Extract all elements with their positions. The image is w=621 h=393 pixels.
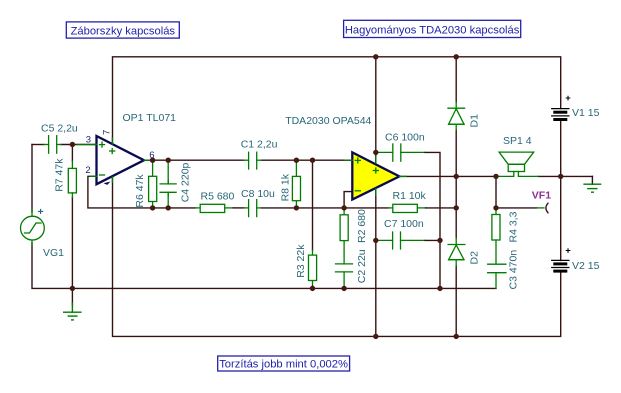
svg-text:R2 680: R2 680 bbox=[356, 209, 368, 243]
wire VG1 column and ground row bbox=[31, 145, 33, 213]
label title right bbox=[344, 20, 521, 37]
wire C5 input row bbox=[32, 144, 44, 146]
svg-text:7: 7 bbox=[102, 130, 113, 135]
node C6 left bbox=[373, 150, 378, 155]
svg-text:TDA2030 OPA544: TDA2030 OPA544 bbox=[285, 115, 371, 127]
svg-text:6: 6 bbox=[149, 150, 154, 161]
wire battery column mid bbox=[560, 120, 562, 260]
svg-text:+: + bbox=[38, 206, 44, 218]
svg-text:R3 22k: R3 22k bbox=[295, 244, 307, 278]
node VF1 tap bbox=[493, 205, 498, 210]
svg-text:R4 3,3: R4 3,3 bbox=[508, 211, 520, 242]
wire TDA output row bbox=[399, 175, 497, 177]
node R3 top bbox=[310, 158, 315, 163]
svg-text:D2: D2 bbox=[469, 251, 481, 265]
svg-text:SP1 4: SP1 4 bbox=[503, 135, 532, 147]
node battery mid bbox=[558, 174, 563, 179]
resistor R3 bbox=[309, 255, 317, 280]
wire TDA power bottom bbox=[375, 188, 377, 337]
battery V1 bbox=[552, 109, 569, 120]
wire top rail bbox=[113, 57, 561, 144]
wire R7 column bbox=[71, 145, 73, 162]
wire op-amp output row bbox=[144, 159, 244, 161]
diode D1 bbox=[448, 102, 465, 130]
svg-text:C7 100n: C7 100n bbox=[384, 218, 424, 230]
wire TDA minus input bbox=[344, 192, 352, 208]
diode D2 bbox=[448, 238, 465, 266]
node R8 bottom bbox=[294, 205, 299, 210]
svg-text:3: 3 bbox=[86, 135, 91, 146]
wire feedback row bbox=[153, 207, 196, 209]
wire diode column bbox=[455, 57, 457, 102]
svg-text:C2 22u: C2 22u bbox=[356, 249, 368, 283]
label title left bbox=[66, 22, 179, 38]
wire op-amp pin2 feedback bbox=[88, 176, 153, 208]
capacitor C3 bbox=[488, 240, 506, 288]
resistor R5 bbox=[200, 204, 225, 212]
op-amp U2 TDA2030 bbox=[345, 152, 406, 199]
node C6C7 ground bbox=[437, 286, 442, 291]
svg-text:C1 2,2u: C1 2,2u bbox=[241, 138, 278, 150]
svg-text:2: 2 bbox=[85, 165, 90, 176]
capacitor C1 bbox=[244, 152, 261, 169]
node speaker left bbox=[493, 174, 498, 179]
svg-text:V1 15: V1 15 bbox=[572, 107, 600, 119]
svg-text:C3 470n: C3 470n bbox=[508, 250, 520, 290]
node R7 bottom ground bbox=[70, 286, 75, 291]
svg-text:Hagyományos TDA2030 kapcsolás: Hagyományos TDA2030 kapcsolás bbox=[345, 25, 520, 37]
wire R8 column bbox=[295, 160, 297, 176]
node dots bbox=[70, 54, 564, 339]
node C4 top bbox=[166, 158, 171, 163]
ground (right) bbox=[584, 184, 601, 192]
node R1 right bbox=[454, 205, 459, 210]
svg-text:R6 47k: R6 47k bbox=[134, 174, 146, 208]
wire VF1 row bbox=[496, 207, 537, 209]
wire bottom rail bbox=[113, 177, 561, 337]
resistor R4 bbox=[492, 215, 500, 241]
svg-text:Torzítás jobb mint 0,002%: Torzítás jobb mint 0,002% bbox=[219, 358, 348, 370]
wire R2 C2 column bbox=[343, 208, 345, 215]
op-amp OP1 bbox=[77, 136, 151, 185]
voltage generator VG1 bbox=[21, 209, 45, 245]
capacitor C5 bbox=[44, 136, 61, 154]
node D2 bottom rail bbox=[454, 334, 459, 339]
node C5/R7/pin3 bbox=[70, 142, 75, 147]
node D1 output bbox=[454, 174, 459, 179]
svg-text:R5 680: R5 680 bbox=[201, 191, 235, 203]
svg-text:C4 220p: C4 220p bbox=[180, 162, 192, 202]
node C7 left bbox=[373, 238, 378, 243]
svg-text:VG1: VG1 bbox=[43, 247, 64, 259]
wire C6 leads bbox=[378, 151, 393, 153]
resistor R7 bbox=[68, 168, 76, 193]
resistor R8 bbox=[292, 176, 300, 200]
node R8 top bbox=[294, 158, 299, 163]
speaker SP1 bbox=[497, 152, 538, 176]
svg-text:Záborszky kapcsolás: Záborszky kapcsolás bbox=[71, 25, 176, 37]
wire C7 leads bbox=[378, 239, 393, 241]
wire R3 column bbox=[312, 160, 314, 250]
node R2 top bbox=[341, 205, 346, 210]
capacitor C6 bbox=[393, 144, 401, 161]
resistor R1 bbox=[393, 204, 418, 212]
battery V2 bbox=[552, 260, 569, 271]
svg-text:D1: D1 bbox=[469, 114, 481, 128]
resistor R6 bbox=[149, 176, 157, 201]
capacitor C8 bbox=[244, 200, 261, 217]
node TDA V- rail bbox=[373, 334, 378, 339]
wire R6 column bbox=[152, 160, 154, 176]
voltage probe VF1 bbox=[537, 203, 548, 213]
svg-text:C6 100n: C6 100n bbox=[385, 132, 425, 144]
op-amp phase arrow bbox=[104, 182, 111, 185]
node R6 bottom bbox=[150, 205, 155, 210]
svg-text:OP1 TL071: OP1 TL071 bbox=[123, 112, 177, 124]
node R3 bottom bbox=[310, 286, 315, 291]
wire TDA power top bbox=[375, 57, 377, 165]
svg-text:VF1: VF1 bbox=[532, 190, 551, 202]
node C2 bottom bbox=[341, 286, 346, 291]
node D1 top rail bbox=[454, 54, 459, 59]
capacitor C7 bbox=[393, 232, 401, 249]
svg-text:+: + bbox=[565, 93, 571, 104]
resistor R2 bbox=[340, 215, 348, 241]
node C7 right bbox=[437, 238, 442, 243]
svg-text:+: + bbox=[565, 245, 571, 256]
svg-text:R1 10k: R1 10k bbox=[393, 190, 427, 202]
ground (left) bbox=[64, 303, 81, 320]
svg-text:R7 47k: R7 47k bbox=[54, 158, 66, 192]
node pin6/R6 bbox=[150, 158, 155, 163]
wire C4 column bbox=[167, 160, 169, 184]
svg-text:V2 15: V2 15 bbox=[572, 260, 600, 272]
label bottom note bbox=[218, 356, 350, 371]
capacitor C2 bbox=[336, 241, 353, 289]
svg-text:C8 10u: C8 10u bbox=[241, 188, 275, 200]
wire R4 column bbox=[495, 176, 497, 208]
svg-text:R8 1k: R8 1k bbox=[280, 173, 292, 201]
svg-text:C5 2,2u: C5 2,2u bbox=[41, 123, 78, 135]
capacitor C4 bbox=[160, 180, 176, 196]
node C4 bottom bbox=[166, 205, 171, 210]
node TDA V+ rail bbox=[373, 54, 378, 59]
